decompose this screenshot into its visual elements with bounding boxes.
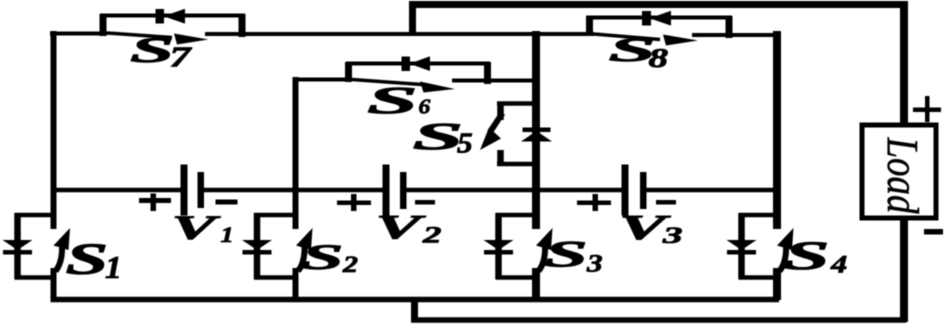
minus sign of V2 — [415, 200, 435, 205]
diode of S8 — [642, 11, 651, 26]
svg-text:6: 6 — [419, 95, 432, 119]
switch S8 — [586, 11, 732, 46]
battery V2 — [337, 165, 435, 216]
wire: upper rail right segment — [692, 33, 780, 37]
plus sign of V2 — [337, 201, 371, 206]
plus sign of V3 — [577, 201, 611, 206]
svg-text:3: 3 — [586, 250, 603, 277]
svg-text:1: 1 — [105, 251, 122, 286]
switch S5 — [480, 102, 552, 164]
arrowhead of S2 — [296, 228, 313, 250]
svg-text:2: 2 — [422, 222, 442, 247]
wire: jog between bottom rails — [411, 297, 418, 321]
wire: top output rail — [409, 1, 908, 8]
plus sign of V1 — [139, 198, 171, 203]
diode of S6 — [402, 57, 411, 72]
minus sign of load — [924, 229, 943, 235]
svg-text:1: 1 — [221, 223, 234, 247]
switch S7 — [100, 9, 245, 45]
switch S1 — [3, 213, 71, 279]
diode of S4 — [727, 240, 757, 250]
wire: mid rail segment 2 — [202, 188, 384, 193]
label S7 — [130, 30, 193, 72]
diode D5 on center leg — [523, 128, 551, 133]
wire: S2 upper vertical — [293, 77, 299, 229]
label S4 — [784, 234, 847, 279]
wire: load bottom vertical — [900, 218, 908, 322]
plus sign of load — [913, 108, 941, 113]
minus sign of V3 — [656, 200, 676, 205]
diode of S7 — [156, 9, 165, 24]
wire: mid rail segment 4 — [644, 188, 779, 193]
wire: bottom rail — [51, 297, 780, 303]
switch S4 — [727, 213, 794, 279]
arrowhead of S4 — [777, 228, 794, 250]
svg-text:Load: Load — [878, 137, 927, 214]
wire: upper rail left segment — [50, 32, 107, 36]
label S3 — [545, 234, 603, 277]
svg-text:5: 5 — [457, 129, 473, 159]
svg-text:3: 3 — [662, 222, 683, 248]
load box — [862, 96, 943, 235]
wire: right vertical upper — [773, 31, 781, 229]
minus sign of V1 — [216, 200, 238, 205]
arrowhead of S5 — [480, 128, 501, 151]
label V1 — [172, 209, 234, 248]
svg-text:7: 7 — [170, 41, 194, 72]
arrowhead of S3 — [536, 228, 553, 250]
svg-text:S: S — [130, 30, 174, 70]
svg-text:S: S — [302, 237, 344, 277]
diode of S2 — [242, 240, 272, 250]
arrowhead of S6 — [420, 82, 455, 93]
label S5 — [413, 116, 473, 159]
wire: right vertical lower — [773, 268, 781, 300]
wire: mid rail segment 1 — [51, 188, 182, 193]
label S6 — [367, 80, 431, 122]
label S2 — [302, 237, 358, 277]
wire: load top vertical — [900, 2, 908, 125]
wire: vertical connector x=412 — [409, 2, 416, 36]
diode of S3 — [484, 240, 514, 250]
svg-text:S: S — [66, 234, 109, 283]
arrowhead of S1 — [54, 228, 71, 250]
svg-text:S: S — [367, 80, 418, 122]
switch S6 — [293, 56, 540, 92]
svg-text:S: S — [784, 234, 830, 278]
arrowhead of S8 — [663, 35, 698, 46]
wire: center vertical upper — [532, 31, 540, 229]
wire: mid rail segment 3 — [404, 188, 624, 193]
battery V1 — [139, 165, 238, 216]
label V3 — [619, 208, 683, 248]
label S1 — [66, 234, 122, 286]
svg-text:S: S — [545, 234, 588, 275]
wire: upper rail middle segment — [205, 32, 594, 36]
arrowhead of S7 — [174, 34, 209, 45]
svg-text:8: 8 — [649, 44, 669, 74]
svg-text:4: 4 — [830, 251, 847, 279]
svg-text:V: V — [172, 209, 221, 246]
switch S2 — [242, 213, 313, 279]
svg-text:S: S — [413, 116, 464, 158]
wire: left vertical upper — [51, 31, 57, 229]
svg-text:V: V — [376, 208, 427, 246]
battery V3 — [577, 165, 676, 216]
wire: left vertical lower — [51, 268, 57, 300]
label V2 — [376, 208, 442, 248]
wire: S2 lower vertical — [293, 268, 299, 300]
wire: lowest output rail — [411, 317, 906, 323]
switch S3 — [484, 213, 553, 279]
diode of S1 — [3, 240, 33, 250]
label S8 — [609, 31, 669, 73]
wire: center vertical lower — [532, 268, 540, 300]
svg-text:2: 2 — [342, 251, 358, 277]
